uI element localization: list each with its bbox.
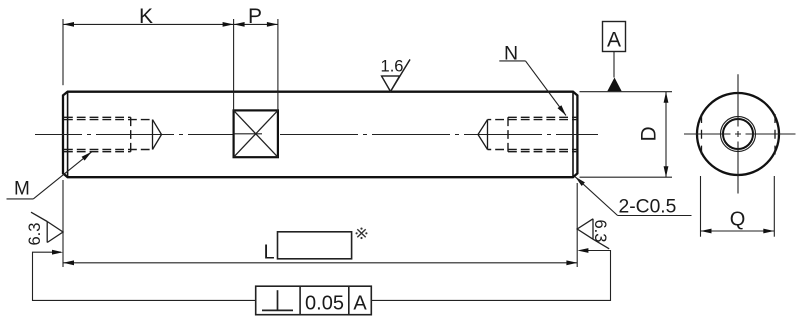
- svg-text:Q: Q: [730, 209, 746, 231]
- dimension L label: [264, 242, 275, 264]
- left hole minor dia hidden line top: [64, 119, 153, 121]
- square cross-section symbol: [234, 110, 278, 157]
- dimension Q extension line left: [700, 176, 702, 237]
- left hole thread major dia hidden line bottom: [64, 151, 131, 153]
- frame leader to left face: [33, 250, 256, 301]
- left hole thread depth hidden line: [130, 117, 132, 151]
- shaft body outline with chamfered ends: [63, 92, 577, 178]
- end view hidden flat line right: [774, 114, 776, 155]
- svg-text:P: P: [248, 5, 262, 28]
- right hole thread major dia hidden line top: [508, 116, 576, 118]
- right hole minor dia hidden line top: [488, 119, 577, 121]
- left hole thread major dia hidden line top: [64, 116, 131, 118]
- surface roughness symbol 6.3 left: [26, 212, 63, 245]
- dimension K extension line left: [62, 19, 64, 85]
- surface roughness symbol 1.6: [381, 57, 410, 91]
- dimension D extension line top: [580, 91, 673, 93]
- chamfer callout 2-C0.5: [575, 177, 691, 218]
- svg-text:A: A: [353, 293, 367, 315]
- dimension D line: [664, 92, 669, 178]
- svg-text:0.05: 0.05: [305, 293, 344, 315]
- svg-text:6.3: 6.3: [26, 223, 44, 246]
- L value empty box: [278, 232, 352, 259]
- feature control frame box: [256, 286, 372, 315]
- datum reference A: [353, 293, 367, 315]
- reference mark kome: [356, 228, 368, 240]
- dimension L extension line left: [62, 180, 64, 267]
- centerline dash inside square: [234, 133, 262, 135]
- dimension D extension line bottom: [580, 176, 673, 178]
- svg-text:K: K: [139, 5, 153, 28]
- right hole thread major dia hidden line bottom: [508, 151, 576, 153]
- svg-text:A: A: [607, 29, 621, 52]
- svg-text:1.6: 1.6: [381, 57, 404, 75]
- dimension P label: [248, 5, 262, 28]
- perpendicularity symbol: [262, 290, 293, 310]
- dimension Q line: [701, 229, 775, 234]
- left hole drill cone: [153, 120, 162, 150]
- dimension Q label: [730, 209, 746, 231]
- tolerance value 0.05: [305, 293, 344, 315]
- dimension L extension line right: [576, 183, 578, 267]
- svg-text:M: M: [14, 179, 30, 200]
- end view thread major circle: [721, 117, 756, 152]
- frame leader to right face: [371, 248, 610, 300]
- right chamfer edge line: [572, 92, 574, 178]
- dimension L line: [63, 260, 577, 265]
- dimension K extension line right / P left: [233, 19, 235, 110]
- end view hole minor circle: [723, 119, 753, 149]
- front view centerline: [35, 134, 598, 136]
- datum A frame box: [603, 22, 626, 52]
- end view vertical centerline: [737, 74, 739, 193]
- end view horizontal centerline: [684, 133, 796, 135]
- left chamfer edge line: [67, 92, 69, 178]
- dimension Q extension line right: [773, 176, 775, 237]
- surface roughness symbol 6.3 right: [577, 219, 609, 249]
- end view hidden flat line left: [701, 114, 703, 155]
- end view outer circle: [697, 93, 779, 175]
- dimension P line: [234, 22, 278, 27]
- right hole minor dia hidden line bottom: [488, 149, 577, 151]
- svg-text:6.3: 6.3: [591, 220, 609, 243]
- dimension P extension line right: [277, 19, 279, 110]
- label M with leader: [7, 152, 92, 200]
- right hole thread depth hidden line: [507, 117, 509, 151]
- svg-text:D: D: [638, 126, 661, 141]
- left hole minor dia hidden line bottom: [64, 149, 153, 151]
- datum A leader and filled triangle: [607, 52, 621, 92]
- dimension K line: [63, 22, 234, 27]
- dimension K label: [139, 5, 153, 28]
- svg-text:2-C0.5: 2-C0.5: [619, 196, 677, 217]
- right hole drill cone: [478, 120, 488, 150]
- dimension D label: [638, 126, 661, 141]
- svg-text:L: L: [264, 242, 275, 264]
- label N with leader: [499, 42, 566, 115]
